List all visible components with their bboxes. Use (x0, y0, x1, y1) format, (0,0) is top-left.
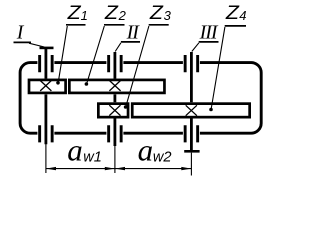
svg-text:I: I (16, 22, 25, 44)
svg-text:a: a (138, 133, 154, 168)
svg-text:Z: Z (149, 3, 165, 24)
svg-text:3: 3 (164, 8, 172, 23)
svg-text:1: 1 (81, 8, 88, 23)
svg-text:III: III (199, 22, 219, 44)
svg-text:Z: Z (225, 3, 241, 24)
svg-text:a: a (67, 133, 83, 168)
svg-text:4: 4 (239, 8, 246, 23)
svg-text:2: 2 (118, 8, 127, 23)
svg-text:Z: Z (104, 3, 120, 24)
svg-text:w1: w1 (83, 150, 102, 166)
svg-text:w2: w2 (153, 150, 172, 166)
